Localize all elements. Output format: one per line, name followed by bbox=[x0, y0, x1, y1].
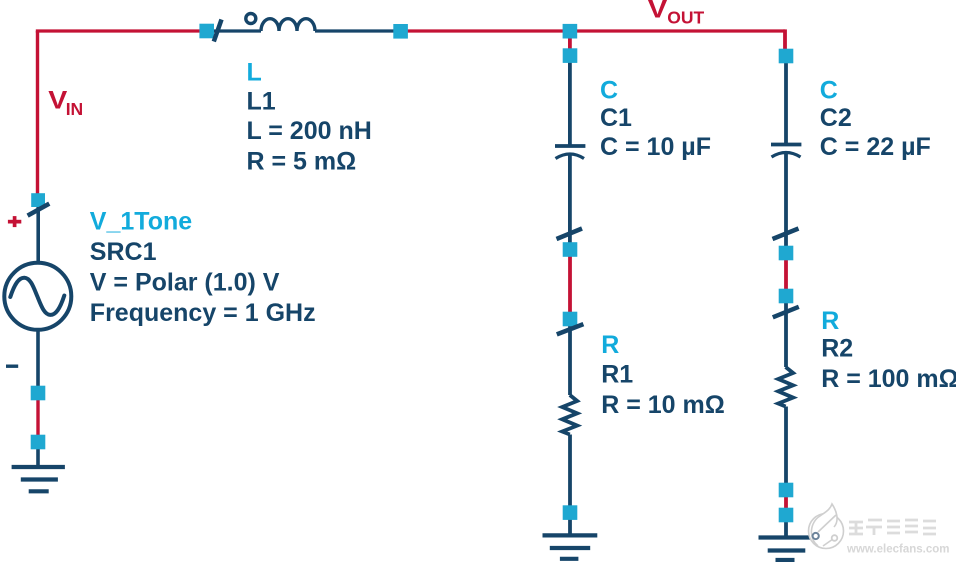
svg-text:L = 200 nH: L = 200 nH bbox=[247, 117, 372, 145]
svg-text:C: C bbox=[600, 76, 618, 104]
svg-text:Frequency = 1 GHz: Frequency = 1 GHz bbox=[90, 299, 316, 327]
svg-text:R: R bbox=[601, 331, 619, 359]
svg-text:SRC1: SRC1 bbox=[90, 238, 157, 266]
svg-text:L1: L1 bbox=[247, 87, 276, 115]
svg-text:R = 10 mΩ: R = 10 mΩ bbox=[601, 391, 725, 419]
svg-text:V_1Tone: V_1Tone bbox=[90, 208, 192, 236]
svg-text:OUT: OUT bbox=[667, 8, 704, 28]
svg-text:V: V bbox=[648, 0, 668, 23]
svg-text:R1: R1 bbox=[601, 360, 633, 388]
svg-text:R: R bbox=[821, 307, 839, 335]
svg-text:R = 5 mΩ: R = 5 mΩ bbox=[247, 148, 357, 176]
svg-text:C2: C2 bbox=[820, 104, 852, 132]
svg-text:C1: C1 bbox=[600, 104, 632, 132]
svg-text:L: L bbox=[247, 59, 262, 87]
svg-text:R = 100 mΩ: R = 100 mΩ bbox=[821, 365, 956, 393]
svg-text:C = 10 µF: C = 10 µF bbox=[600, 133, 711, 161]
svg-text:R2: R2 bbox=[821, 335, 853, 363]
svg-text:IN: IN bbox=[66, 99, 84, 119]
svg-text:C = 22 µF: C = 22 µF bbox=[820, 133, 931, 161]
svg-text:www.elecfans.com: www.elecfans.com bbox=[846, 544, 949, 556]
svg-text:V = Polar (1.0) V: V = Polar (1.0) V bbox=[90, 269, 280, 297]
svg-text:C: C bbox=[820, 76, 838, 104]
svg-text:V: V bbox=[48, 86, 67, 114]
